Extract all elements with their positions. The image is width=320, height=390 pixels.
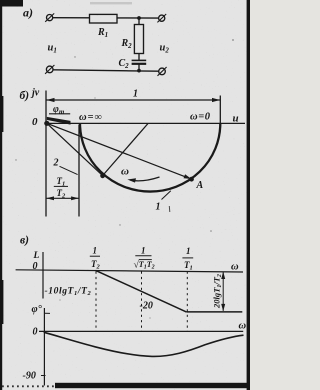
axis jv vertical (45, 91, 47, 217)
phi m underline (49, 113, 70, 115)
dimension line 1 (47, 99, 220, 101)
line omega=inf vertical (78, 125, 80, 217)
curved arrow omega (131, 177, 160, 181)
svg-text:1: 1 (133, 89, 138, 100)
svg-text:-10lgT1/T2: -10lgT1/T2 (45, 287, 92, 298)
wire top left (53, 17, 90, 19)
terminal output top (159, 15, 165, 21)
node junction bottom (137, 69, 141, 73)
svg-text:L: L (33, 251, 40, 261)
tick omega=0 (219, 96, 221, 124)
svg-text:1: 1 (93, 246, 98, 256)
terminal input bottom (46, 66, 53, 73)
paper background (0, 0, 250, 390)
terminal input top (47, 15, 53, 21)
svg-text:1: 1 (141, 246, 146, 256)
svg-text:0: 0 (32, 116, 38, 128)
svg-text:-90: -90 (23, 371, 36, 382)
scan border bottom bar (55, 383, 250, 388)
scan specks (15, 39, 234, 319)
svg-text:ω=∞: ω=∞ (79, 112, 103, 123)
asymptote flat (186, 311, 242, 313)
scan border left blobs (0, 96, 3, 132)
scan border top-left bar (0, 0, 23, 7)
scan border right edge (247, 0, 250, 390)
stray mark (168, 206, 171, 212)
axis L vertical (42, 252, 44, 299)
wire C2 to bottom (138, 64, 140, 71)
phi m wedge (47, 117, 71, 125)
dashed line 1/T2 (95, 272, 97, 332)
svg-text:1: 1 (156, 202, 161, 213)
axis phi vertical (43, 308, 45, 386)
svg-text:ω: ω (239, 321, 247, 332)
axis u horizontal (46, 122, 245, 124)
svg-text:б): б) (20, 90, 30, 102)
scan border bottom dotted (2, 385, 55, 387)
wire stub to R2 (138, 18, 140, 25)
svg-text:ω=0: ω=0 (190, 112, 211, 123)
svg-text:0: 0 (33, 327, 38, 338)
node tangent point (100, 173, 105, 178)
svg-text:u: u (233, 113, 239, 125)
terminal output bottom (159, 68, 166, 75)
dimension arrow right (222, 272, 224, 311)
node junction top (137, 16, 141, 20)
node A (189, 177, 194, 182)
vector to A (47, 123, 190, 178)
svg-text:а): а) (23, 6, 33, 20)
svg-text:2: 2 (53, 158, 59, 169)
resistor R2 (134, 25, 143, 54)
top smudge (90, 2, 132, 4)
asymptote sloped (96, 270, 187, 312)
scan border left edge (0, 0, 2, 390)
wire bottom (53, 70, 159, 71)
svg-text:в): в) (20, 235, 29, 247)
dimension arrow T1/T2 (46, 197, 79, 199)
radius line (103, 124, 148, 176)
dashed line mid (141, 272, 143, 332)
resistor R1 (90, 14, 118, 23)
axis phi horizontal (39, 330, 243, 332)
svg-text:-20: -20 (140, 301, 153, 312)
svg-text:20lgT1/T2: 20lgT1/T2 (212, 274, 223, 309)
svg-text:1: 1 (186, 246, 191, 256)
wire top right (117, 17, 159, 19)
svg-text:A: A (196, 180, 204, 191)
node origin (44, 121, 49, 126)
dashed line 1/T1 (186, 272, 188, 332)
small tick (45, 312, 50, 314)
axis L horizontal (16, 270, 243, 272)
svg-text:jv: jv (30, 88, 40, 99)
svg-text:ω: ω (231, 262, 239, 273)
hodograph semicircle (80, 123, 220, 191)
tangent line (47, 123, 103, 175)
wire R2 to C2 (138, 54, 140, 61)
phase curve (44, 332, 244, 356)
svg-text:ω: ω (121, 166, 129, 178)
capacitor C2 (132, 59, 147, 61)
svg-text:φ°: φ° (32, 304, 43, 315)
